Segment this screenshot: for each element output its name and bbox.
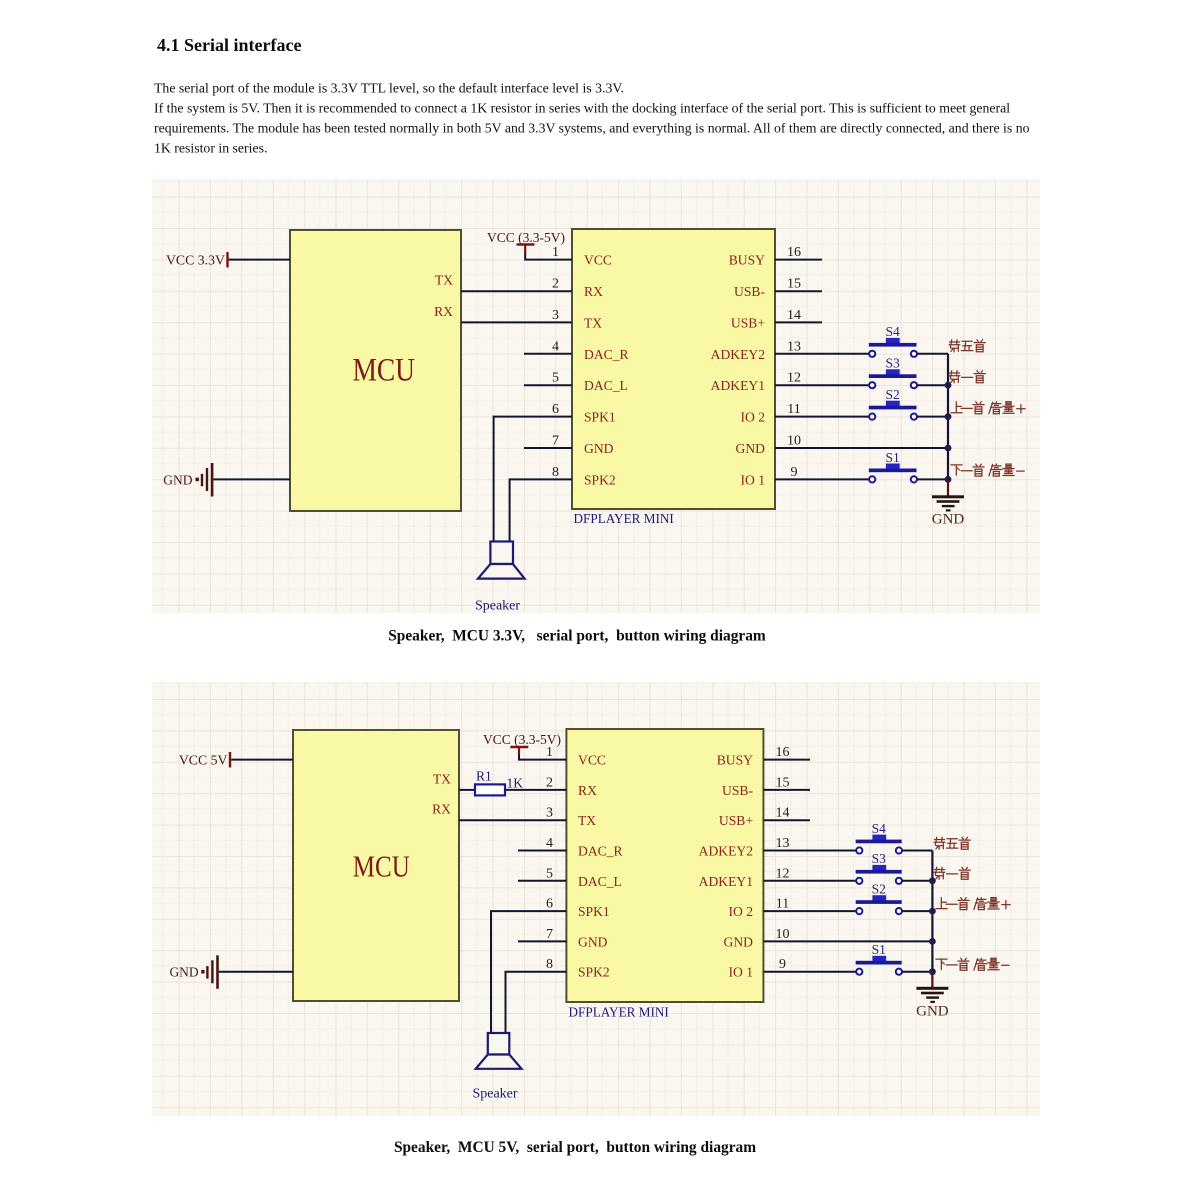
ground symbol right GND d2 [916,972,949,1020]
svg-text:VCC (3.3-5V): VCC (3.3-5V) [487,230,565,245]
node label fifth-song d2 [934,837,970,849]
svg-text:S1: S1 [885,450,899,465]
power flag VCC (3.3-5V) [487,230,565,253]
wire pin10 GND to bus [775,434,948,449]
svg-text:The serial port of the module: The serial port of the module is 3.3V TT… [154,81,624,96]
wire S1 to bus [917,478,948,480]
pin 4 stub DAC_R [524,339,572,354]
ground symbol left 2 (MCU GND) [169,955,218,989]
svg-text:4: 4 [552,339,559,354]
switch S2 (pin11 IO 2) [775,387,917,420]
wire MCU RX to pin3 TX d2 [459,806,566,821]
power flag VCC 5V [179,752,231,768]
node label next/vol- d2 [936,958,1009,970]
switch S3 d2 (pin12 ADKEY1) [764,851,903,884]
svg-text:GND: GND [169,964,198,979]
MCU U1 block [290,230,461,511]
wire S4 to bus d2 [902,850,932,852]
pin 14 stub USB+ [775,308,822,323]
svg-text:14: 14 [787,308,801,323]
junction node pin11 d2 [929,908,936,915]
svg-text:ADKEY1: ADKEY1 [711,378,765,393]
svg-text:8: 8 [546,957,553,972]
svg-text:7: 7 [552,434,559,449]
svg-text:USB-: USB- [734,284,765,299]
junction node pin12 [945,382,952,389]
svg-text:requirements. The module has b: requirements. The module has been tested… [154,121,1030,136]
caption 2 [394,1139,756,1156]
svg-text:15: 15 [787,277,801,292]
svg-text:R1: R1 [476,769,492,784]
svg-text:7: 7 [546,927,553,942]
svg-text:USB-: USB- [722,783,753,798]
svg-text:VCC: VCC [584,253,612,268]
svg-text:GND: GND [163,472,192,487]
svg-text:5: 5 [552,371,559,386]
ground symbol right GND [932,479,965,527]
svg-text:16: 16 [776,745,790,760]
ground symbol left (MCU GND) [163,463,213,497]
svg-text:8: 8 [552,465,559,480]
svg-text:S2: S2 [872,882,886,897]
svg-text:SPK2: SPK2 [584,472,616,487]
svg-text:VCC: VCC [578,753,606,768]
power flag VCC 3.3V [166,252,229,268]
svg-text:ADKEY1: ADKEY1 [699,874,753,889]
svg-text:S4: S4 [885,324,900,339]
wire power to pin1 [525,253,572,260]
svg-text:4: 4 [546,836,553,851]
svg-text:1K resistor in series.: 1K resistor in series. [154,141,267,156]
svg-text:14: 14 [776,806,790,821]
svg-text:15: 15 [776,775,790,790]
svg-text:IO 2: IO 2 [740,410,765,425]
pin 5 stub DAC_L d2 [518,866,566,881]
node label prev/vol+ d2 [936,898,1010,910]
pin 7 stub GND d2 [518,927,566,942]
pin 5 stub DAC_L [524,371,572,386]
svg-text:DFPLAYER MINI: DFPLAYER MINI [574,511,674,526]
svg-text:S4: S4 [872,821,887,836]
svg-text:If the system is 5V. Then it i: If the system is 5V. Then it is recommen… [154,101,1010,116]
node label next/vol- [951,464,1024,476]
button bus wire d2 [931,851,933,988]
diagram 1 grid background [152,179,1040,613]
pin 14 stub USB+ d2 [764,806,811,821]
svg-text:1: 1 [546,745,553,760]
svg-text:DAC_L: DAC_L [578,874,622,889]
svg-text:USB+: USB+ [719,813,753,828]
wire power2 to pin1 [519,755,566,760]
pin 15 stub USB- [775,277,822,292]
svg-text:TX: TX [433,771,451,786]
svg-text:1: 1 [552,245,559,260]
svg-text:2: 2 [546,775,553,790]
svg-text:16: 16 [787,245,801,260]
svg-text:12: 12 [776,866,790,881]
pin 7 stub GND [524,434,572,449]
svg-text:TX: TX [578,813,596,828]
speaker LS2 [472,1033,521,1102]
switch S1 d2 (pin9 IO 1) [764,942,903,975]
power flag VCC (3.3-5V) 2 [483,732,561,755]
node label first-song d2 [934,867,970,879]
svg-text:S3: S3 [885,356,900,371]
svg-text:TX: TX [435,273,453,288]
wire S2 to bus [917,416,948,418]
svg-text:MCU: MCU [353,850,410,884]
wire pin8 SPK2 to speaker d2 [506,957,567,1033]
svg-text:3: 3 [546,806,553,821]
wire MCU TX to pin2 RX [461,277,572,292]
node label prev/vol+ [951,402,1025,414]
junction node pin9 [945,476,952,483]
svg-text:11: 11 [776,897,789,912]
svg-text:9: 9 [791,465,798,480]
resistor R1 1K [459,769,566,796]
pin 16 stub BUSY d2 [764,745,811,760]
svg-text:BUSY: BUSY [717,753,753,768]
node label first-song [949,371,985,383]
wire MCU RX to pin3 TX [461,308,572,323]
svg-text:GND: GND [916,1004,949,1020]
pin 1 number d2 [546,745,553,760]
wire S2 to bus d2 [902,910,932,912]
diagram 2 grid background [152,682,1040,1116]
wire GND to MCU [213,478,290,480]
svg-text:RX: RX [432,802,451,817]
svg-text:GND: GND [578,934,608,949]
wire S1 to bus d2 [902,971,932,973]
svg-text:S2: S2 [885,387,899,402]
switch S4 (pin13 ADKEY2) [775,324,917,357]
svg-text:11: 11 [787,402,800,417]
wire pin10 GND to bus d2 [764,927,933,942]
svg-text:IO 2: IO 2 [728,904,753,919]
svg-text:RX: RX [584,284,603,299]
svg-text:ADKEY2: ADKEY2 [699,844,754,859]
svg-text:GND: GND [736,441,766,456]
svg-text:1K: 1K [507,776,524,791]
MCU U3 block [293,730,459,1001]
junction node pin12 d2 [929,877,936,884]
switch S2 d2 (pin11 IO 2) [764,882,903,915]
junction node pin10 [945,445,952,452]
title [157,35,301,55]
switch S1 (pin9 IO 1) [775,450,917,483]
switch S3 (pin12 ADKEY1) [775,356,917,389]
svg-text:DAC_L: DAC_L [584,378,628,393]
svg-text:9: 9 [779,957,786,972]
wire pin8 SPK2 to speaker [510,465,572,542]
svg-text:13: 13 [787,339,801,354]
switch S4 d2 (pin13 ADKEY2) [764,821,903,854]
svg-text:6: 6 [552,402,559,417]
svg-text:Speaker: Speaker [472,1087,517,1102]
svg-text:SPK1: SPK1 [584,410,616,425]
svg-text:DAC_R: DAC_R [584,347,629,362]
DFPLAYER MINI U4 block [566,729,763,1020]
junction node pin11 [945,413,952,420]
wire VCC5 to MCU [231,759,293,761]
pin 16 stub BUSY [775,245,822,260]
DFPLAYER MINI U2 block [572,229,775,526]
svg-text:S1: S1 [872,942,886,957]
svg-text:DAC_R: DAC_R [578,844,623,859]
wire pin6 SPK1 to speaker d2 [491,897,566,1034]
svg-text:ADKEY2: ADKEY2 [711,347,766,362]
svg-text:Speaker: Speaker [475,599,520,614]
svg-text:IO 1: IO 1 [728,965,753,980]
wire pin6 SPK1 to speaker [494,402,572,542]
paragraph [154,81,1030,156]
svg-text:4.1 Serial interface: 4.1 Serial interface [157,35,301,55]
svg-text:Speaker, MCU 3.3V, serial p: Speaker, MCU 3.3V, serial port, button w… [388,628,766,645]
wire S3 to bus [917,384,948,386]
svg-text:VCC 3.3V: VCC 3.3V [166,252,225,267]
wire S3 to bus d2 [902,880,932,882]
pin 15 stub USB- d2 [764,775,811,790]
svg-text:MCU: MCU [352,352,415,388]
svg-text:12: 12 [787,371,801,386]
junction node pin9 d2 [929,968,936,975]
svg-text:5: 5 [546,866,553,881]
svg-text:GND: GND [584,441,614,456]
svg-text:10: 10 [787,434,801,449]
button bus wire [947,354,949,496]
wire GND2 to MCU [219,971,293,973]
pin numbers 13 12 11 9 [787,339,801,480]
svg-text:USB+: USB+ [731,315,765,330]
pin numbers 13 12 11 9 d2 [776,836,790,972]
wire VCC3.3 to MCU [229,259,290,261]
svg-text:13: 13 [776,836,790,851]
svg-text:6: 6 [546,897,553,912]
caption 1 [388,628,766,645]
svg-text:RX: RX [434,304,453,319]
wire S4 to bus [917,353,948,355]
node label fifth-song [949,340,985,352]
svg-text:GND: GND [932,512,965,528]
svg-text:TX: TX [584,315,602,330]
svg-text:10: 10 [776,927,790,942]
svg-text:2: 2 [552,277,559,292]
junction node pin10 d2 [929,938,936,945]
svg-text:DFPLAYER MINI: DFPLAYER MINI [569,1005,669,1020]
svg-text:IO 1: IO 1 [740,472,765,487]
pin 1 number [552,245,559,260]
svg-text:SPK1: SPK1 [578,904,610,919]
svg-text:RX: RX [578,783,597,798]
svg-text:Speaker, MCU 5V, serial port: Speaker, MCU 5V, serial port, button wir… [394,1139,756,1156]
svg-text:GND: GND [724,934,754,949]
svg-text:SPK2: SPK2 [578,965,610,980]
speaker LS1 [475,542,525,614]
svg-text:VCC 5V: VCC 5V [179,752,228,767]
pin 4 stub DAC_R d2 [518,836,566,851]
svg-text:S3: S3 [872,851,887,866]
svg-text:3: 3 [552,308,559,323]
svg-text:BUSY: BUSY [729,253,765,268]
